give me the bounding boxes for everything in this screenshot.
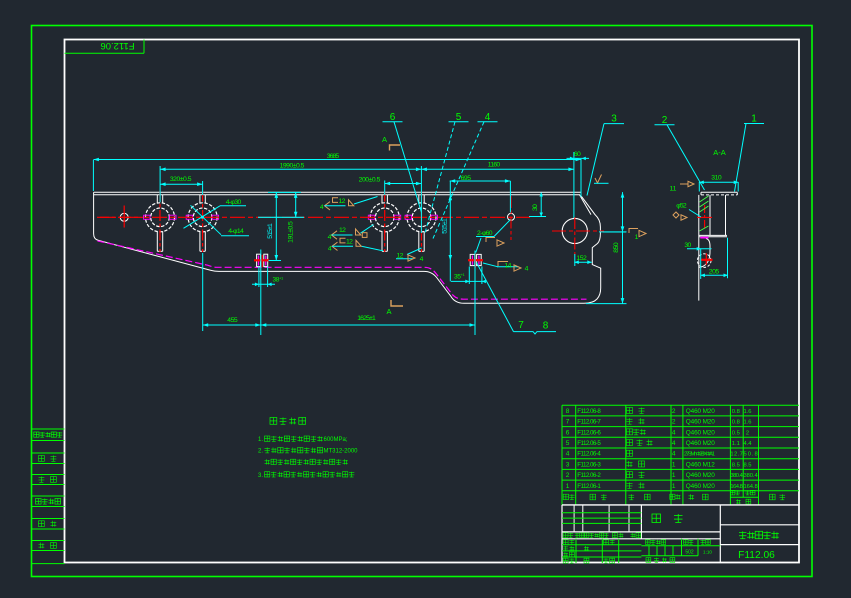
svg-text:12: 12 xyxy=(339,198,346,205)
svg-text:8: 8 xyxy=(566,408,570,415)
svg-text:3685: 3685 xyxy=(327,153,340,160)
svg-text:7: 7 xyxy=(566,419,570,426)
svg-text:2: 2 xyxy=(672,419,676,426)
svg-text:1.1: 1.1 xyxy=(732,441,740,447)
svg-text:Q460 M20: Q460 M20 xyxy=(686,440,715,447)
svg-text:4: 4 xyxy=(485,112,491,123)
svg-text:4: 4 xyxy=(525,266,529,273)
svg-text:4-φ30: 4-φ30 xyxy=(226,199,242,206)
svg-text:F112.06-7: F112.06-7 xyxy=(577,419,601,426)
svg-text:F112.06: F112.06 xyxy=(100,40,134,51)
svg-text:380.4: 380.4 xyxy=(744,473,759,479)
svg-text:4: 4 xyxy=(328,234,332,241)
svg-text:1990±0.5: 1990±0.5 xyxy=(280,163,305,170)
svg-text:3: 3 xyxy=(611,114,617,125)
svg-text:1: 1 xyxy=(751,114,757,125)
svg-text:12: 12 xyxy=(346,239,353,246)
svg-text:1: 1 xyxy=(672,483,676,490)
svg-text:850: 850 xyxy=(613,242,620,253)
svg-text:5: 5 xyxy=(566,440,570,447)
svg-text:12.7: 12.7 xyxy=(730,452,742,458)
svg-text:152: 152 xyxy=(576,255,587,262)
svg-text:F112.06-1: F112.06-1 xyxy=(577,483,601,490)
svg-text:8.5: 8.5 xyxy=(743,462,751,468)
svg-text:0.8: 0.8 xyxy=(732,420,740,426)
svg-text:2.: 2. xyxy=(258,449,263,455)
svg-text:164.8: 164.8 xyxy=(744,484,758,490)
svg-text:F112.06-2: F112.06-2 xyxy=(577,472,601,479)
svg-text:Q460 M20: Q460 M20 xyxy=(686,472,715,479)
svg-text:F112.06: F112.06 xyxy=(738,550,775,561)
svg-text:60: 60 xyxy=(574,151,581,158)
svg-text:502: 502 xyxy=(685,550,694,556)
svg-text:1.6: 1.6 xyxy=(743,420,751,426)
svg-text:2: 2 xyxy=(662,115,668,126)
svg-text:7: 7 xyxy=(518,320,524,331)
svg-text:4: 4 xyxy=(672,451,676,458)
svg-text:5: 5 xyxy=(456,112,462,123)
svg-text:4.4: 4.4 xyxy=(743,441,752,447)
svg-text:Q460 M20: Q460 M20 xyxy=(686,408,715,415)
svg-text:φ52: φ52 xyxy=(676,202,687,209)
svg-text:Q460 M20: Q460 M20 xyxy=(686,419,715,426)
svg-text:0.5: 0.5 xyxy=(732,430,740,436)
svg-text:50.8: 50.8 xyxy=(744,452,758,458)
svg-text:1160: 1160 xyxy=(488,162,501,169)
svg-text:695: 695 xyxy=(461,175,472,182)
svg-text:F112.06-3: F112.06-3 xyxy=(577,461,601,468)
svg-text:F112.06-5: F112.06-5 xyxy=(577,440,601,447)
svg-text:205: 205 xyxy=(709,269,720,276)
svg-text:380.4: 380.4 xyxy=(730,473,743,479)
svg-text:A-A: A-A xyxy=(713,148,726,157)
svg-text:8: 8 xyxy=(543,321,549,332)
svg-text:A: A xyxy=(386,307,391,316)
svg-text:27SiMnΦ28XΦA1: 27SiMnΦ28XΦA1 xyxy=(684,452,715,458)
svg-text:455: 455 xyxy=(227,317,238,324)
svg-text:12: 12 xyxy=(339,227,346,234)
svg-text:4: 4 xyxy=(328,246,332,253)
svg-text:Q460 M20: Q460 M20 xyxy=(686,429,715,436)
svg-text:320±0.5: 320±0.5 xyxy=(170,176,192,183)
svg-text:2: 2 xyxy=(746,430,749,436)
svg-text:310: 310 xyxy=(711,175,722,182)
svg-text:Q460 M12: Q460 M12 xyxy=(686,461,715,468)
svg-text:4: 4 xyxy=(566,451,570,458)
svg-text:2-φ60: 2-φ60 xyxy=(477,230,493,237)
svg-text:3.: 3. xyxy=(258,473,263,479)
svg-text:MT312-2000: MT312-2000 xyxy=(324,449,359,455)
svg-text:F112.06-6: F112.06-6 xyxy=(577,429,601,436)
svg-text:1: 1 xyxy=(635,234,639,241)
svg-text:600MPa;: 600MPa; xyxy=(324,437,348,443)
svg-text:8.5: 8.5 xyxy=(732,462,740,468)
svg-text:30: 30 xyxy=(532,204,539,211)
svg-text:3: 3 xyxy=(566,461,570,468)
svg-text:6: 6 xyxy=(566,429,570,436)
svg-text:4: 4 xyxy=(420,256,424,263)
svg-text:Q460 M20: Q460 M20 xyxy=(686,483,715,490)
svg-text:4: 4 xyxy=(320,204,324,211)
svg-text:4: 4 xyxy=(672,440,676,447)
svg-text:12: 12 xyxy=(397,253,404,260)
svg-text:A: A xyxy=(382,135,387,144)
svg-text:30: 30 xyxy=(684,242,691,249)
svg-text:F112.06-4: F112.06-4 xyxy=(577,451,601,458)
svg-text:1:10: 1:10 xyxy=(703,550,712,555)
svg-text:4: 4 xyxy=(672,429,676,436)
svg-text:2: 2 xyxy=(672,408,676,415)
svg-text:14: 14 xyxy=(505,263,512,270)
svg-text:1625±1: 1625±1 xyxy=(357,315,376,322)
svg-text:191±0.5: 191±0.5 xyxy=(287,221,294,243)
svg-text:4-φ14: 4-φ14 xyxy=(228,228,244,235)
svg-text:1: 1 xyxy=(672,472,676,479)
svg-text:1: 1 xyxy=(672,461,676,468)
svg-text:1.: 1. xyxy=(258,437,263,443)
svg-text:F112.06-8: F112.06-8 xyxy=(577,408,601,415)
svg-text:200±0.5: 200±0.5 xyxy=(359,177,381,184)
svg-text:11: 11 xyxy=(670,186,677,193)
svg-text:1: 1 xyxy=(566,483,570,490)
svg-text:2: 2 xyxy=(566,472,570,479)
svg-text:1.6: 1.6 xyxy=(743,409,751,415)
svg-text:515±1: 515±1 xyxy=(267,223,274,239)
svg-text:164.8: 164.8 xyxy=(730,484,742,490)
svg-text:515±1: 515±1 xyxy=(441,218,448,234)
svg-text:0.8: 0.8 xyxy=(732,409,740,415)
svg-text:6: 6 xyxy=(390,112,396,123)
